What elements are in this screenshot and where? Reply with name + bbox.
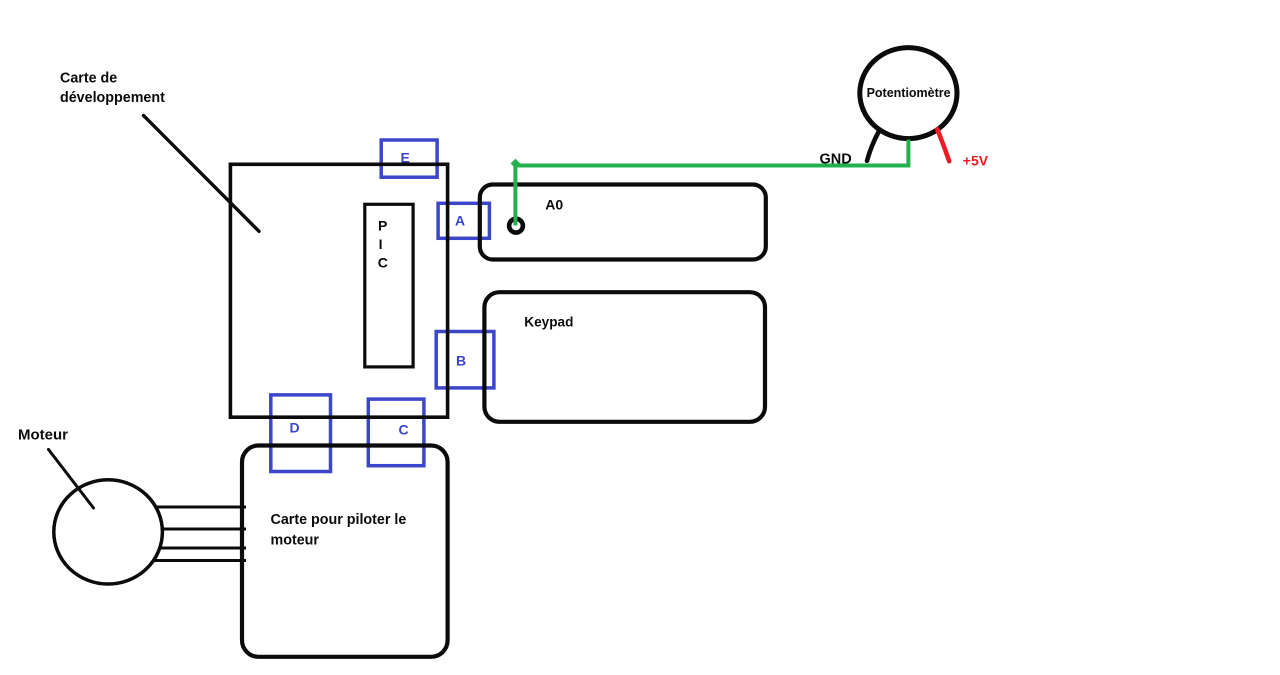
svg-text:développement: développement	[60, 90, 165, 106]
svg-text:B: B	[456, 353, 466, 369]
svg-text:GND: GND	[820, 151, 852, 167]
svg-text:D: D	[290, 420, 300, 436]
svg-text:Moteur: Moteur	[18, 427, 68, 444]
svg-text:Carte de: Carte de	[60, 70, 117, 86]
svg-text:E: E	[401, 150, 410, 166]
svg-text:A: A	[455, 212, 465, 228]
svg-text:Carte pour piloter le: Carte pour piloter le	[271, 512, 407, 528]
svg-text:P: P	[378, 217, 387, 233]
svg-text:C: C	[378, 254, 388, 270]
svg-text:C: C	[399, 422, 409, 438]
svg-text:Keypad: Keypad	[524, 315, 573, 330]
svg-text:moteur: moteur	[271, 532, 320, 548]
svg-text:A0: A0	[545, 197, 563, 213]
svg-text:I: I	[379, 236, 383, 252]
svg-text:Potentiomètre: Potentiomètre	[867, 86, 951, 100]
svg-text:+5V: +5V	[963, 153, 989, 169]
